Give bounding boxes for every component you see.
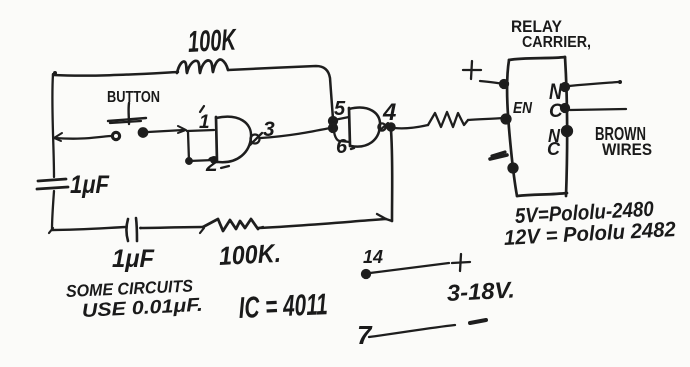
wire node4 down to bottom xyxy=(391,130,392,221)
label 3-18V xyxy=(446,276,515,306)
resistor R3 100K bottom xyxy=(200,219,263,233)
label pin 3 xyxy=(263,118,275,141)
wire bottom horizontal xyxy=(52,214,392,230)
svg-text:4: 4 xyxy=(382,99,396,126)
svg-text:1μF: 1μF xyxy=(70,171,110,199)
minus terminal xyxy=(490,152,507,159)
node EN xyxy=(502,115,511,124)
NAND gate U1A input loop xyxy=(186,130,217,164)
svg-text:BUTTON: BUTTON xyxy=(107,89,160,106)
label N pin1 xyxy=(549,79,563,104)
relay pin C xyxy=(561,104,626,112)
relay carrier box xyxy=(507,57,567,196)
svg-text:EN: EN xyxy=(513,100,532,117)
label pin 5 xyxy=(334,98,346,120)
wire gate1 output to gate2 inputs xyxy=(261,128,330,138)
label 1uF bottom xyxy=(112,245,155,273)
NAND gate U1A body xyxy=(216,117,262,163)
minus supply xyxy=(470,320,486,323)
node bottom-left of box xyxy=(509,164,518,173)
wire node4 to resistor xyxy=(394,125,428,128)
plus supply xyxy=(452,254,470,271)
label 1uF left xyxy=(70,171,110,199)
wire resistor to EN xyxy=(468,118,503,120)
label RELAY CARRIER xyxy=(511,17,591,51)
label pin 1 xyxy=(199,112,210,133)
svg-text:2: 2 xyxy=(205,153,218,176)
label pin 2 xyxy=(205,153,218,176)
label BROWN WIRES xyxy=(595,124,652,159)
svg-text:CARRIER,: CARRIER, xyxy=(522,34,591,51)
label 5V Pololu-2480 xyxy=(514,198,654,228)
svg-text:1: 1 xyxy=(199,112,210,133)
node junction pins 5/6 xyxy=(329,117,337,132)
svg-text:WIRES: WIRES xyxy=(602,140,652,159)
svg-text:100K: 100K xyxy=(187,23,238,59)
svg-text:100K.: 100K. xyxy=(218,238,281,271)
svg-text:7: 7 xyxy=(357,320,373,350)
label SOME CIRCUITS xyxy=(66,276,204,322)
svg-text:1μF: 1μF xyxy=(112,245,155,273)
label pin 4 xyxy=(382,99,396,126)
svg-text:14: 14 xyxy=(363,247,383,267)
label pin 7 xyxy=(357,320,373,350)
wire left vertical xyxy=(49,71,57,233)
svg-text:C: C xyxy=(547,139,561,159)
NAND gate U1B input loop xyxy=(334,117,350,142)
label 12V Pololu 2482 xyxy=(503,218,676,250)
capacitor C1 (left) xyxy=(37,179,68,189)
node output 4 xyxy=(387,123,394,130)
resistor R2 (to EN) xyxy=(428,112,468,127)
label 100K bottom xyxy=(218,238,281,271)
svg-text:3-18V.: 3-18V. xyxy=(446,276,515,306)
wire button row xyxy=(54,126,186,141)
label EN xyxy=(513,100,532,117)
wire pin 7 xyxy=(369,325,455,337)
label C pin3 xyxy=(547,139,561,159)
resistor R1 100K top xyxy=(177,60,228,74)
svg-text:6: 6 xyxy=(336,136,348,158)
svg-text:IC = 4011: IC = 4011 xyxy=(238,288,328,325)
wire top horizontal xyxy=(53,66,333,119)
node pin 14 xyxy=(362,263,449,278)
label N pin3 xyxy=(548,126,561,146)
svg-text:C: C xyxy=(549,101,563,122)
label pin 6 xyxy=(336,136,348,158)
label BUTTON xyxy=(107,89,160,106)
pushbutton S1 xyxy=(108,103,147,140)
label 100K top xyxy=(187,23,238,59)
relay pin NO xyxy=(561,80,622,91)
svg-text:5: 5 xyxy=(334,98,346,120)
relay pin NC xyxy=(562,126,572,136)
capacitor C2 series (bottom) xyxy=(127,218,142,241)
plus terminal xyxy=(463,61,508,88)
dot after pin 6 xyxy=(351,148,354,149)
tick over pin 1 xyxy=(200,106,204,112)
NAND gate U1B body xyxy=(349,108,388,147)
tick after pin 2 xyxy=(221,166,229,168)
label IC = 4011 xyxy=(238,288,328,325)
label C pin2 xyxy=(549,101,563,122)
label pin 14 xyxy=(363,247,383,267)
